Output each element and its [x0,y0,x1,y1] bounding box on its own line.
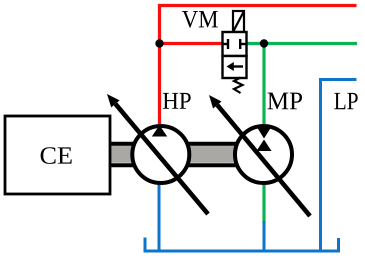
junction node on MP line [260,39,268,47]
valve VM lower position square (flow arrow) [223,56,247,78]
wire LP blue suction of HP pump [158,184,161,250]
wire MP green vertical to pump [262,44,265,224]
label MP [268,93,303,110]
wire HP red branch to valve [160,42,224,45]
label LP [334,93,357,109]
wire LP main riser and top horizontal [321,80,357,252]
shaft CE to HP pump [108,144,140,166]
junction node on HP line [155,39,163,47]
valve VM solenoid actuator [233,11,244,32]
variable displacement arrow of HP pump [107,94,208,214]
valve VM return spring [234,78,243,94]
wire HP red vertical + top horizontal [160,6,357,125]
box CE (combustion engine) [5,116,110,194]
variable displacement arrow of MP pump [209,95,310,216]
label CE [41,147,72,164]
pump HP circle [132,126,189,183]
label HP [163,93,191,109]
pump MP circle [235,126,292,183]
pump MP upper triangle (pointing down) [257,127,272,139]
pump HP output triangle [152,125,167,136]
valve VM upper position square (blocked) [223,32,247,56]
pump MP lower triangle (pointing up) [257,140,272,152]
shaft HP pump to MP pump [185,144,240,166]
wire LP blue suction of MP pump [263,221,266,250]
wire LP tank bottom line with end stubs [145,238,339,252]
label VM [182,11,218,28]
wire MP green horizontal [246,42,357,45]
